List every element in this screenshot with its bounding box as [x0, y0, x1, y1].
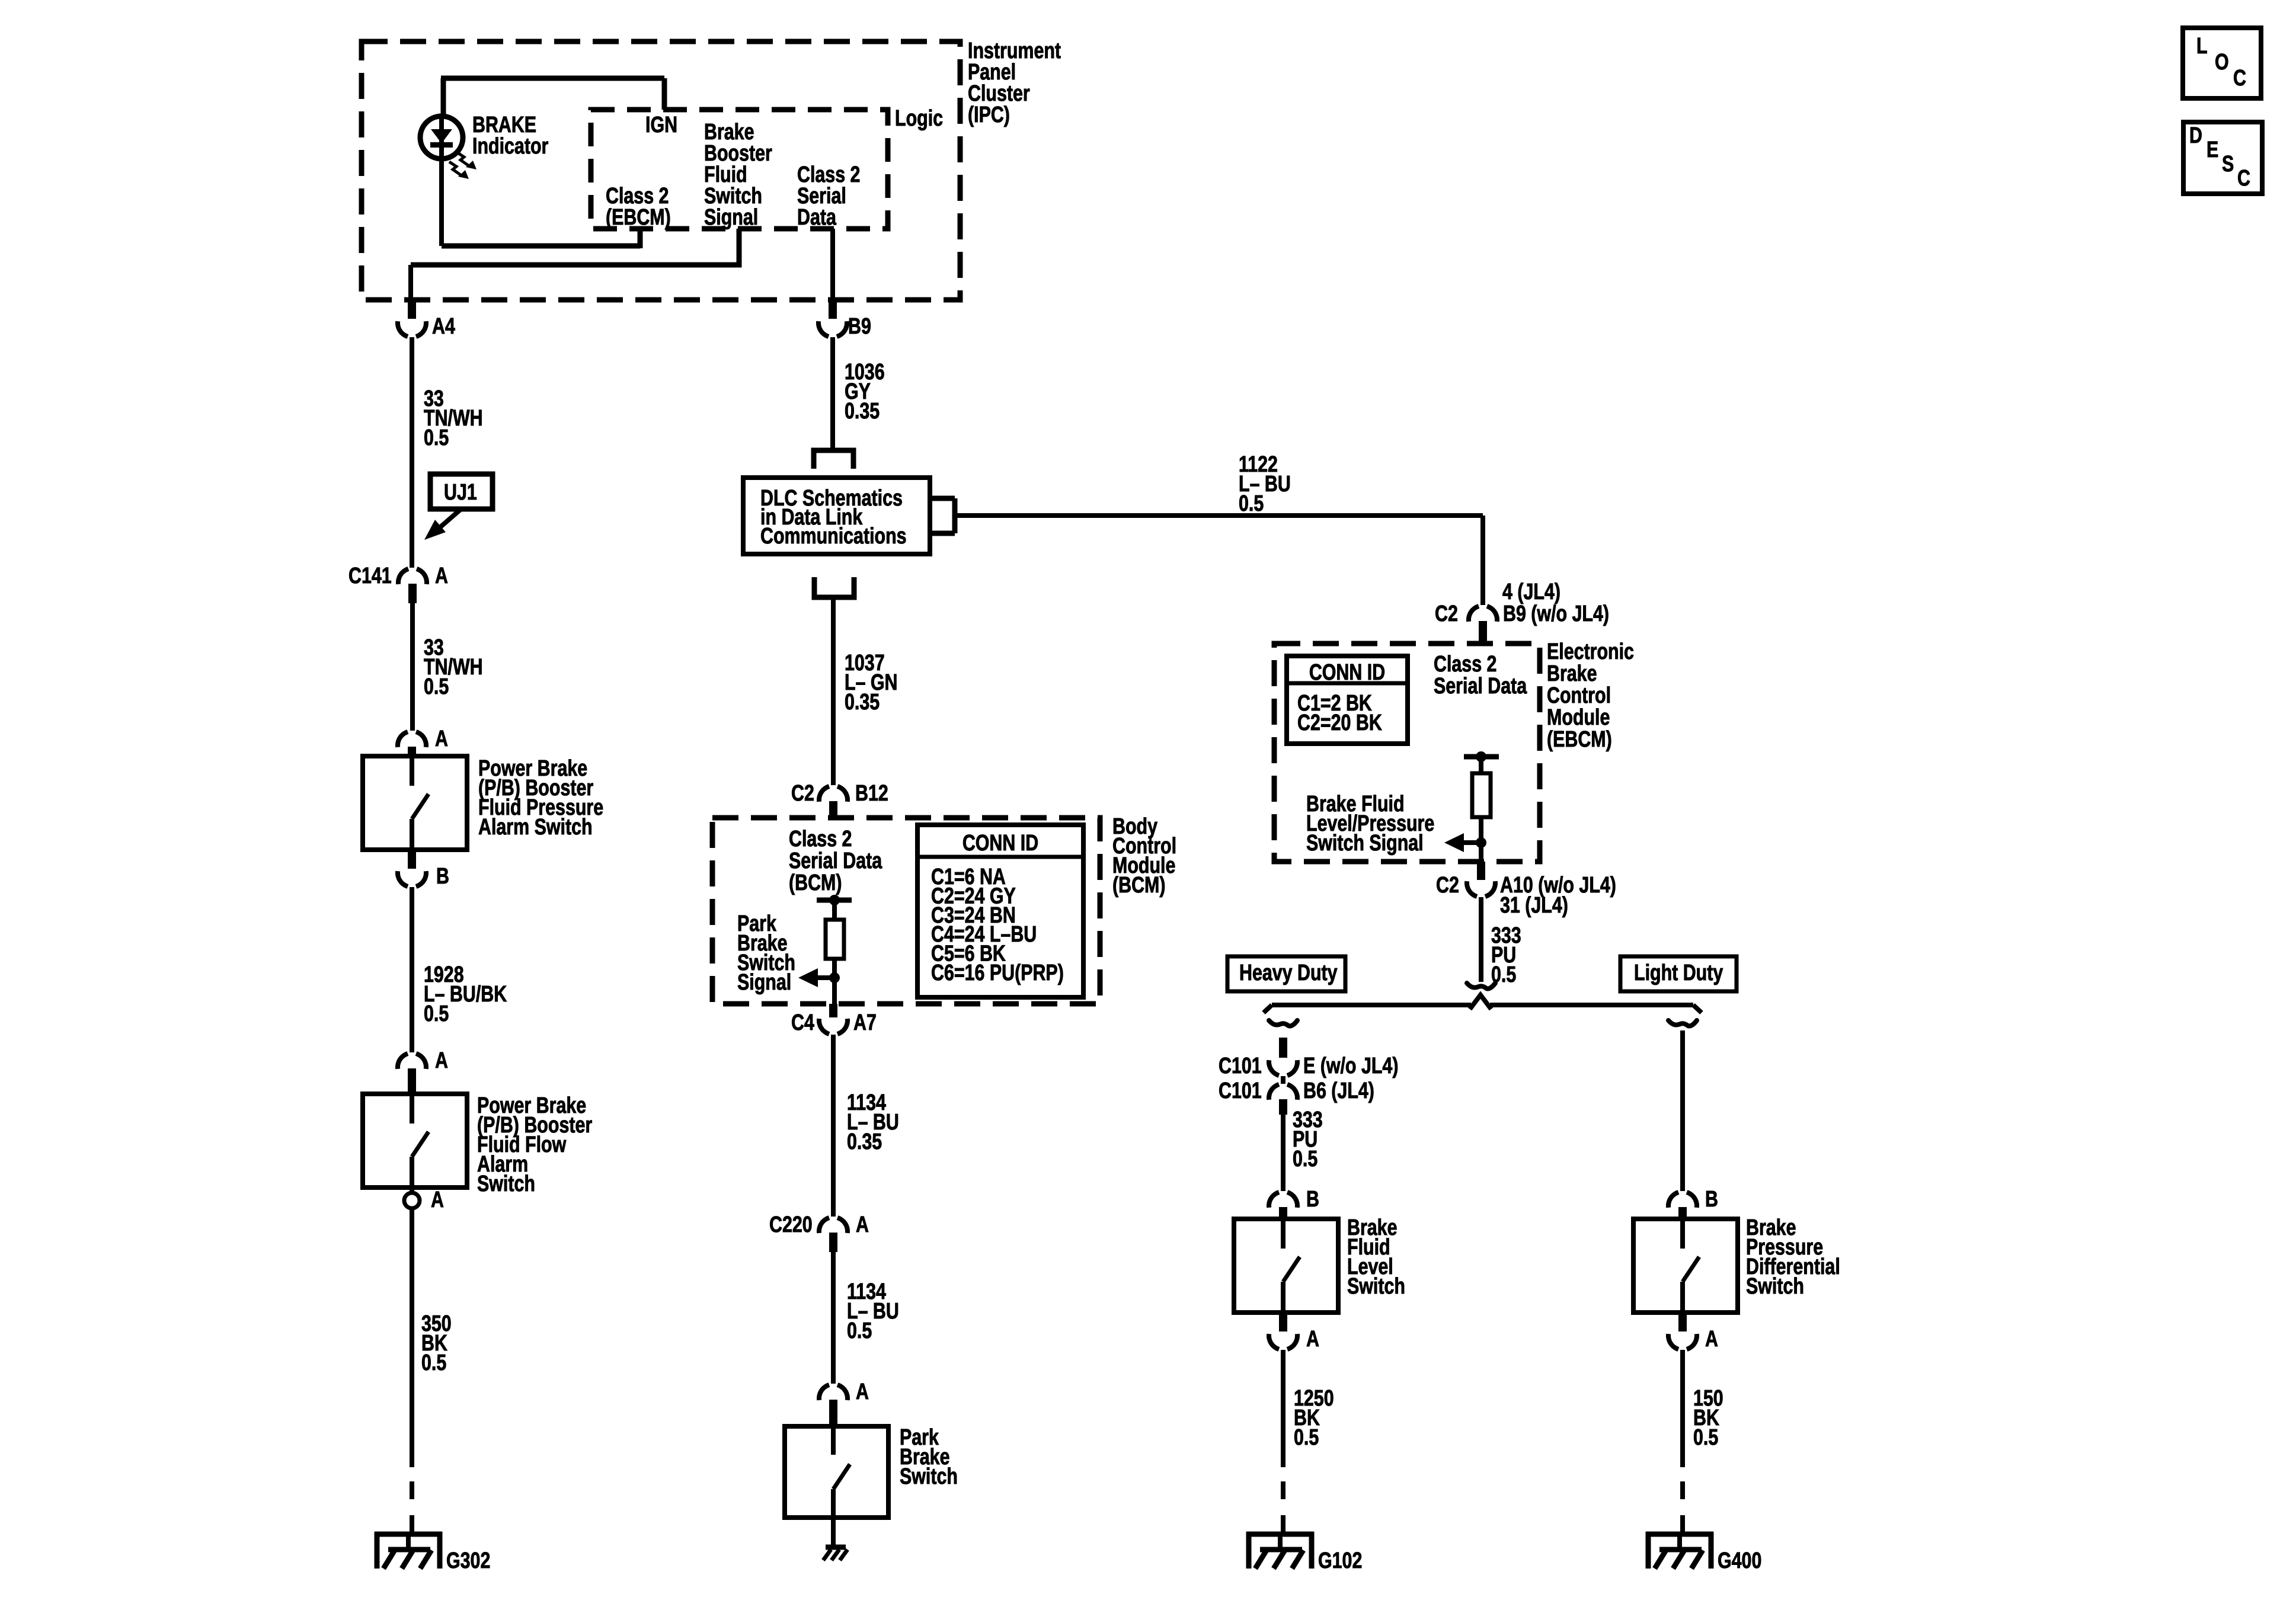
svg-text:B12: B12	[855, 781, 888, 806]
svg-text:B: B	[1705, 1187, 1718, 1212]
svg-text:A: A	[435, 1048, 448, 1073]
svg-text:B9 (w/o JL4): B9 (w/o JL4)	[1503, 601, 1609, 626]
svg-text:A: A	[1306, 1327, 1319, 1352]
svg-text:4 (JL4): 4 (JL4)	[1502, 580, 1560, 604]
svg-text:A: A	[435, 726, 448, 751]
svg-text:Signal: Signal	[737, 970, 791, 995]
svg-text:Serial Data: Serial Data	[1434, 674, 1527, 699]
svg-text:C: C	[2237, 166, 2250, 191]
svg-text:C141: C141	[348, 564, 392, 588]
svg-text:(BCM): (BCM)	[789, 870, 842, 895]
svg-text:Heavy Duty: Heavy Duty	[1239, 961, 1338, 985]
svg-text:Control: Control	[1547, 683, 1611, 708]
svg-text:Communications: Communications	[760, 524, 907, 549]
svg-text:Serial Data: Serial Data	[789, 849, 882, 873]
svg-text:Brake: Brake	[1547, 661, 1597, 686]
svg-text:G102: G102	[1318, 1548, 1362, 1573]
svg-text:E (w/o JL4): E (w/o JL4)	[1303, 1054, 1398, 1078]
svg-text:D: D	[2189, 123, 2202, 148]
svg-text:C6=16 PU(PRP): C6=16 PU(PRP)	[931, 961, 1064, 985]
svg-text:0.5: 0.5	[847, 1318, 872, 1343]
svg-text:0.5: 0.5	[424, 674, 449, 699]
svg-text:0.5: 0.5	[421, 1350, 446, 1375]
svg-text:0.5: 0.5	[1693, 1425, 1718, 1450]
svg-text:A7: A7	[853, 1010, 877, 1035]
svg-text:G400: G400	[1718, 1548, 1761, 1573]
svg-text:B6 (JL4): B6 (JL4)	[1303, 1078, 1374, 1103]
svg-text:31 (JL4): 31 (JL4)	[1500, 893, 1568, 918]
svg-text:Indicator: Indicator	[472, 134, 548, 159]
svg-text:E: E	[2207, 137, 2218, 162]
svg-text:(IPC): (IPC)	[968, 103, 1010, 127]
svg-text:C2: C2	[1435, 601, 1458, 626]
svg-text:A: A	[431, 1188, 444, 1212]
svg-text:0.5: 0.5	[1293, 1147, 1318, 1172]
svg-text:Light Duty: Light Duty	[1634, 961, 1723, 985]
svg-text:A4: A4	[432, 314, 455, 339]
svg-text:B: B	[1306, 1187, 1319, 1212]
svg-text:Switch: Switch	[477, 1172, 535, 1196]
svg-text:UJ1: UJ1	[444, 480, 477, 505]
svg-text:B9: B9	[848, 314, 871, 339]
svg-text:Class 2: Class 2	[789, 827, 852, 852]
svg-text:Signal: Signal	[704, 205, 758, 230]
svg-text:B: B	[436, 864, 449, 889]
svg-text:Logic: Logic	[895, 106, 943, 131]
svg-text:L: L	[2196, 34, 2208, 59]
svg-text:Electronic: Electronic	[1547, 639, 1634, 664]
svg-text:(EBCM): (EBCM)	[1547, 727, 1612, 752]
svg-text:A: A	[1705, 1327, 1718, 1352]
svg-text:Switch: Switch	[900, 1464, 958, 1489]
svg-text:Module: Module	[1547, 705, 1610, 730]
svg-text:C101: C101	[1219, 1054, 1262, 1078]
svg-text:0.35: 0.35	[845, 690, 880, 715]
svg-text:A: A	[435, 564, 448, 588]
svg-text:0.5: 0.5	[1239, 491, 1264, 516]
svg-text:C101: C101	[1219, 1078, 1262, 1103]
svg-text:A: A	[856, 1212, 869, 1237]
svg-text:C: C	[2233, 66, 2246, 91]
svg-text:S: S	[2222, 152, 2234, 177]
svg-text:G302: G302	[446, 1548, 490, 1573]
svg-text:O: O	[2215, 50, 2229, 75]
svg-text:C2: C2	[1436, 873, 1459, 898]
svg-text:CONN ID: CONN ID	[962, 831, 1038, 856]
svg-text:0.5: 0.5	[424, 425, 449, 450]
svg-text:A: A	[856, 1379, 869, 1404]
svg-text:(BCM): (BCM)	[1112, 873, 1165, 898]
svg-text:IGN: IGN	[645, 113, 677, 137]
svg-text:Switch: Switch	[1347, 1274, 1405, 1299]
svg-text:C4: C4	[791, 1010, 814, 1035]
svg-text:C2: C2	[791, 781, 814, 806]
svg-text:C2=20 BK: C2=20 BK	[1297, 710, 1382, 735]
svg-text:0.5: 0.5	[1294, 1425, 1319, 1450]
svg-text:CONN ID: CONN ID	[1309, 660, 1385, 685]
svg-text:Alarm Switch: Alarm Switch	[478, 815, 593, 840]
svg-text:0.35: 0.35	[847, 1129, 882, 1154]
svg-text:Switch: Switch	[1746, 1274, 1804, 1299]
svg-text:Switch Signal: Switch Signal	[1306, 831, 1424, 856]
svg-text:C220: C220	[769, 1212, 813, 1237]
svg-text:0.5: 0.5	[424, 1001, 449, 1026]
svg-text:Class 2: Class 2	[1434, 652, 1496, 677]
svg-text:Data: Data	[797, 205, 837, 230]
svg-text:0.35: 0.35	[845, 399, 880, 424]
svg-text:(EBCM): (EBCM)	[606, 205, 671, 230]
